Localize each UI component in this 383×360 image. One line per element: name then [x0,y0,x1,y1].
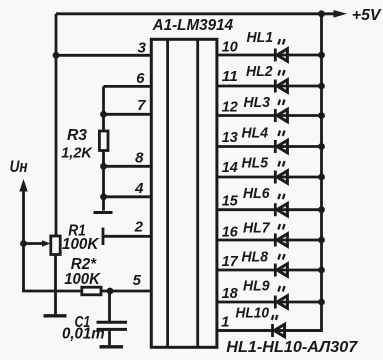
svg-text:HL2: HL2 [246,63,273,80]
ground bar below C1 [100,345,124,348]
node rail row 8 [318,267,325,274]
LED HL7 [275,224,287,247]
ground bar below pin4 branch [94,211,113,214]
potentiometer R1 body [51,236,60,255]
+5V arrow [334,10,348,18]
svg-text:0,01m: 0,01m [62,325,105,342]
node rail row 7 [318,237,325,244]
svg-text:HL8: HL8 [242,249,269,266]
svg-text:R3: R3 [67,127,87,144]
wire pin 4 stub [104,195,153,198]
wire R1 bottom to ground [54,255,57,315]
wire pin 12 stub / LED row 3 [217,114,322,117]
svg-text:HL7: HL7 [243,220,270,237]
svg-text:12: 12 [222,99,239,116]
pin 2 terminal bar [102,228,105,246]
svg-text:100K: 100K [62,236,100,253]
node rail row 6 [318,206,325,213]
wire left rail (+5V to R1 top) [55,14,58,237]
wire pin 8 stub [104,165,153,168]
node rail row 9 [318,299,325,306]
IC U1 A1-LM3914 body [151,39,217,347]
wire pin 7 stub [104,113,153,116]
wire pin 14 stub / LED row 5 [217,176,322,179]
wire pin 17 stub / LED row 8 [217,269,322,272]
svg-text:15: 15 [222,193,239,210]
wire wiper down to R2 [24,244,82,292]
svg-text:1: 1 [221,314,229,331]
svg-text:14: 14 [222,159,239,176]
wire R3 bottom to ground [102,151,105,211]
wire pin 5 stub [101,290,152,293]
node C1 junction [107,288,114,295]
svg-text:3: 3 [138,40,147,57]
LED HL8 [275,254,287,277]
node rail top junction [318,10,325,17]
svg-text:Uн: Uн [10,158,28,176]
svg-text:HL5: HL5 [242,155,269,172]
R1 wiper arrow [24,240,51,246]
svg-text:17: 17 [222,253,239,270]
resistor R2 [82,287,101,295]
capacitor C1 [97,291,128,345]
svg-text:5: 5 [133,272,142,289]
svg-text:HL3: HL3 [244,94,271,111]
svg-text:16: 16 [222,224,239,241]
wire pin 3 stub [56,54,152,57]
svg-text:HL10: HL10 [236,305,270,322]
LED HL2 [275,70,287,93]
svg-text:4: 4 [134,180,144,197]
node rail row 1 [318,52,325,59]
svg-text:11: 11 [222,68,238,85]
svg-text:HL6: HL6 [243,185,270,202]
svg-text:100K: 100K [64,271,101,288]
input arrow Uн [19,179,27,244]
svg-text:7: 7 [137,97,146,114]
svg-text:6: 6 [136,70,145,87]
LED HL5 [275,161,287,184]
wire pin 11 stub / LED row 2 [217,85,322,88]
node wiper junction [20,240,27,247]
LED HL4 [275,131,287,154]
node rail row 3 [318,112,325,119]
svg-text:10: 10 [222,39,239,56]
node rail row 4 [318,143,325,150]
svg-text:18: 18 [222,285,239,302]
LED HL3 [275,100,287,123]
node pin8 junction [100,163,107,170]
svg-text:13: 13 [222,129,239,146]
node rail row 5 [318,174,325,181]
svg-text:A1-LM3914: A1-LM3914 [152,17,234,34]
node pin3 / left rail junction [53,52,60,59]
wire pin 16 stub / LED row 7 [217,239,322,242]
svg-text:HL4: HL4 [242,125,269,142]
LED HL1 [275,39,287,62]
wire pin 13 stub / LED row 4 [217,145,322,148]
wire pin 18 stub / LED row 9 [217,301,322,304]
wire right +5V rail [217,14,322,331]
wire pin 1 stub / LED row 10 [217,329,322,332]
node pin7 junction [100,111,107,118]
svg-text:1,2K: 1,2K [61,145,93,162]
svg-text:HL1: HL1 [247,29,274,46]
svg-text:HL1-HL10-АЛ307: HL1-HL10-АЛ307 [226,339,358,356]
wire branch pin6 to R3 top [102,86,105,131]
LED HL10 [272,315,285,337]
node rail row 2 [318,83,325,90]
wire top +5V rail [56,12,337,15]
svg-text:2: 2 [134,219,144,236]
svg-text:8: 8 [135,150,144,167]
svg-text:HL9: HL9 [243,278,270,295]
LED HL6 [275,194,287,217]
LED HL9 [275,286,287,309]
node pin4 junction [100,193,107,200]
resistor R3 [99,131,108,151]
ground bar below R1 [44,314,67,317]
wire pin 15 stub / LED row 6 [217,208,322,211]
wire pin 10 stub / LED row 1 [217,54,322,57]
wire pin 2 stub [103,235,152,238]
wire pin 6 stub [104,85,153,88]
svg-text:+5V: +5V [352,7,382,24]
